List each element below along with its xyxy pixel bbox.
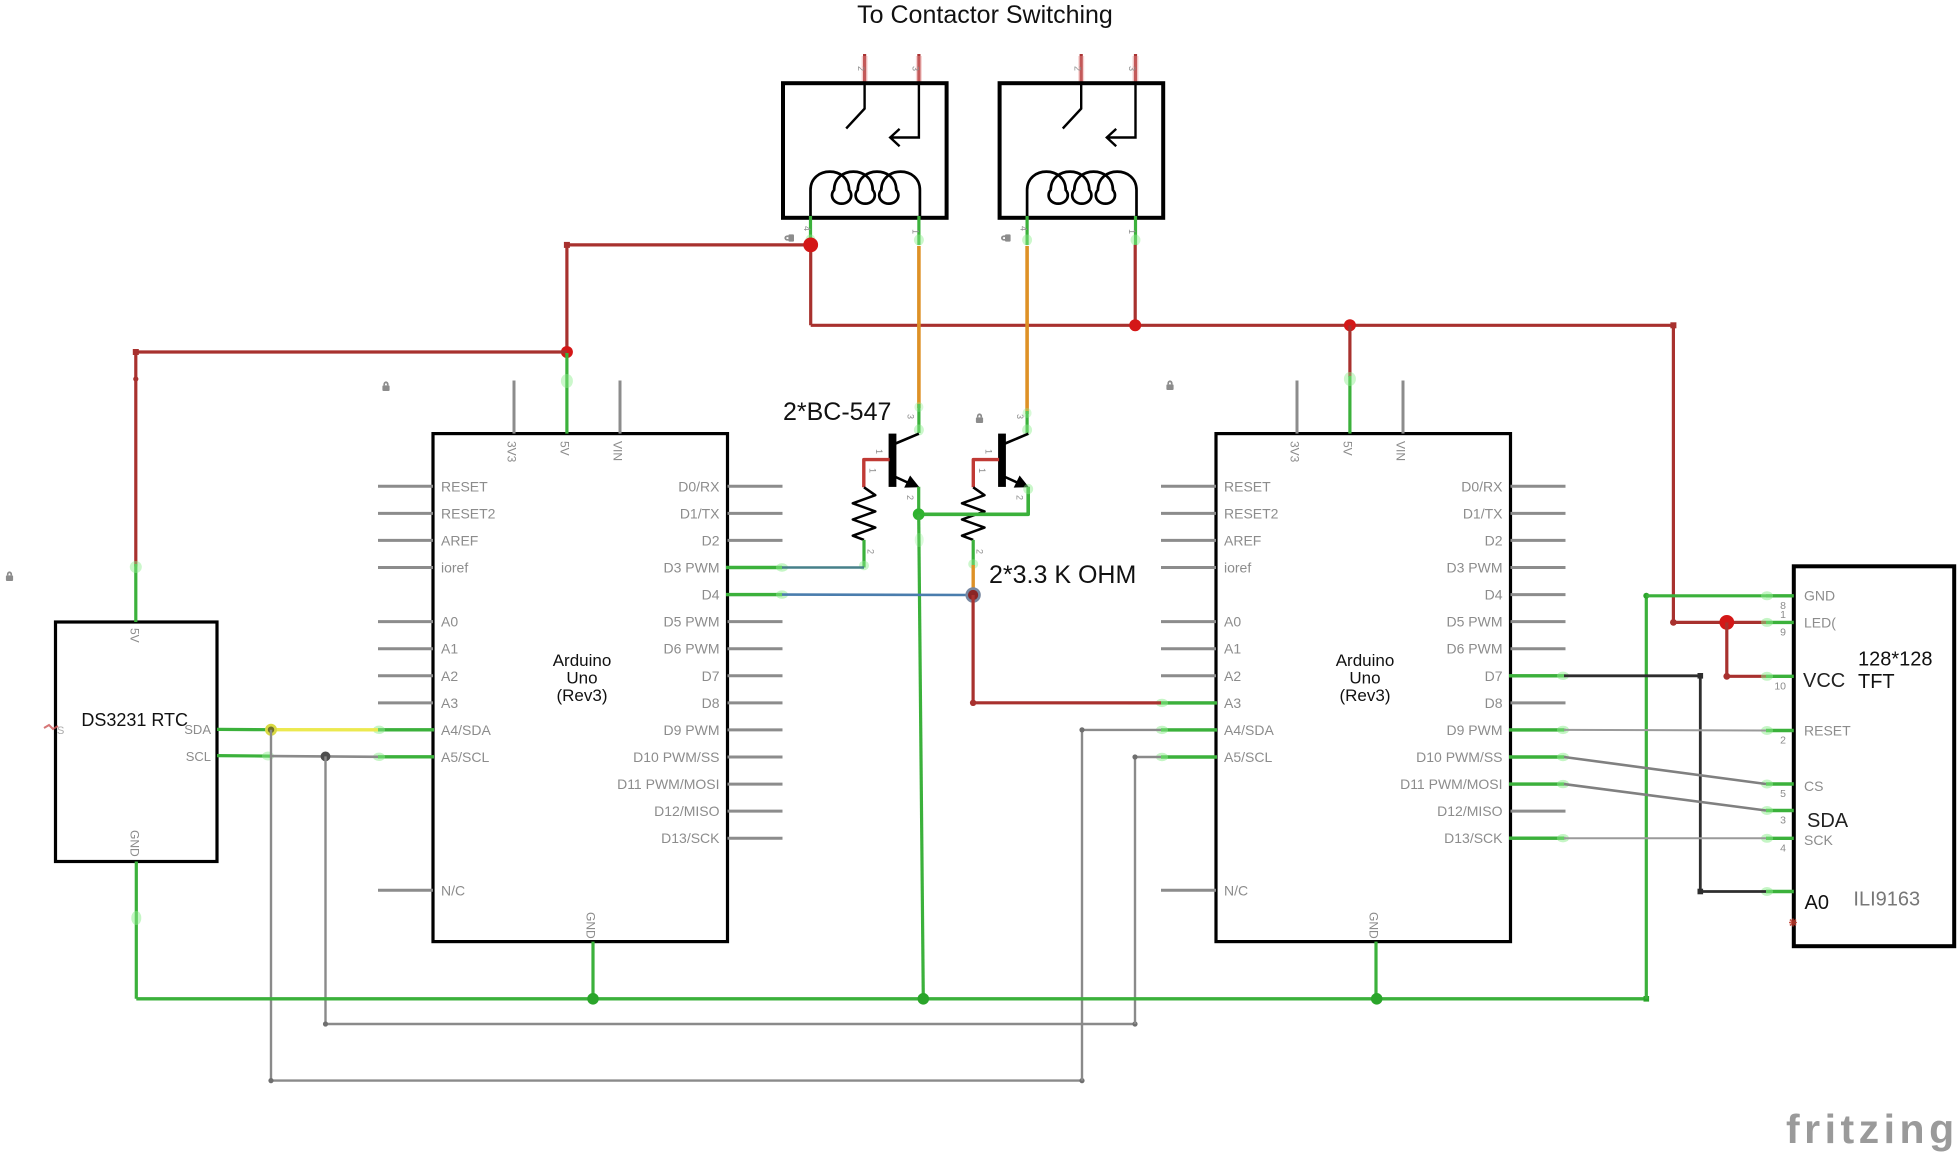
U2 pin A2 stub (1161, 674, 1216, 677)
svg-text:SCK: SCK (1804, 832, 1833, 848)
wire dark red: to Arduino U2 A3 (973, 701, 1161, 704)
svg-text:A0: A0 (1224, 614, 1241, 630)
svg-text:D6 PWM: D6 PWM (1447, 641, 1503, 657)
svg-text:SDA: SDA (1807, 810, 1849, 832)
wire gray SDA long: up to U2 A4 (1081, 730, 1083, 1081)
svg-text:D1/TX: D1/TX (680, 505, 720, 521)
U1 pin A2 stub (378, 674, 433, 677)
svg-text:AREF: AREF (441, 532, 478, 548)
U2 pin D7 stub (1511, 674, 1566, 677)
junction green U1 GND (587, 993, 599, 1005)
U1 pin D1/TX stub (728, 512, 783, 515)
junction red at TFT LED (1719, 615, 1734, 630)
svg-text:A5/SCL: A5/SCL (441, 749, 489, 765)
wire orange: relay K2 pin4 to Q2 collector (1025, 246, 1029, 414)
resistor R1 (3.3k) zigzag (853, 487, 876, 540)
svg-text:A3: A3 (441, 695, 458, 711)
wire red 5V: down to DS3231 (134, 352, 137, 567)
U2 pin D2 stub (1511, 539, 1566, 542)
svg-text:GND: GND (128, 830, 142, 857)
svg-text:A3: A3 (1224, 695, 1241, 711)
svg-text:RESET: RESET (1804, 723, 1851, 739)
svg-text:3V3: 3V3 (1288, 441, 1302, 463)
wire red 5V: down left branch (565, 245, 568, 352)
svg-text:128*128: 128*128 (1858, 649, 1933, 671)
TFT pin LED( stub (1766, 621, 1794, 624)
svg-text:A2: A2 (1224, 668, 1241, 684)
svg-text:D13/SCK: D13/SCK (661, 830, 720, 846)
U2 pin D13/SCK stub (1511, 837, 1566, 840)
svg-text:D7: D7 (1485, 668, 1503, 684)
junction green emitter chain (918, 993, 930, 1005)
svg-text:2: 2 (866, 549, 876, 554)
green overlay U1 A5 stub (378, 755, 434, 758)
relay K1 common arrow (890, 85, 919, 146)
U1 pin D9 PWM stub (728, 728, 783, 731)
bend dot SDA b (1079, 1078, 1084, 1083)
svg-text:D10 PWM/SS: D10 PWM/SS (633, 749, 719, 765)
green overlay U1 A4 stub (378, 728, 434, 731)
svg-text:To Contactor Switching: To Contactor Switching (857, 1, 1113, 29)
U2 pin D1/TX stub (1511, 512, 1566, 515)
wire gray thin: U2 D9 to TFT RESET (1564, 729, 1766, 732)
wire gray SDA long: into U2 A4 (1082, 729, 1161, 731)
U2 pin RESET stub (1161, 485, 1216, 488)
U2 pin A1 stub (1161, 647, 1216, 650)
wire green: DS3231 GND down (135, 862, 138, 999)
svg-text:GND: GND (1367, 912, 1381, 939)
U1 pin GND stub (591, 942, 594, 999)
Arduino Uno U2 body (1216, 434, 1511, 942)
svg-text:D5 PWM: D5 PWM (664, 614, 720, 630)
green overlay U2 A3 stub (1161, 701, 1217, 704)
green overlay U1 D4 stub (726, 593, 782, 596)
svg-text:D0/RX: D0/RX (1461, 478, 1503, 494)
svg-text:3: 3 (910, 66, 920, 71)
lock icon Arduino U2 (1166, 380, 1173, 390)
svg-text:D12/MISO: D12/MISO (654, 803, 719, 819)
svg-text:D8: D8 (702, 695, 720, 711)
junction red relay K1 pin4 (803, 238, 818, 253)
U2 pin A3 stub (1161, 701, 1216, 704)
svg-text:N/C: N/C (441, 882, 465, 898)
corner dot red 2 (133, 349, 139, 355)
U1 pin D2 stub (728, 539, 783, 542)
U1 pin D3 PWM stub (728, 566, 783, 569)
svg-text:RESET: RESET (1224, 478, 1271, 494)
U2 pin D0/RX stub (1511, 485, 1566, 488)
junction green emitters (913, 508, 925, 520)
svg-text:A4/SDA: A4/SDA (1224, 722, 1274, 738)
wire gray SCL long: across bottom (326, 1023, 1136, 1025)
svg-text:(Rev3): (Rev3) (556, 686, 607, 705)
relay K1 coil (811, 172, 920, 217)
svg-text:GND: GND (1804, 588, 1835, 604)
wire gray SDA long: down (270, 730, 272, 1081)
U1 pin D12/MISO stub (728, 810, 783, 813)
TFT pin CS stub (1766, 782, 1794, 785)
TFT pin VCC stub (1766, 675, 1794, 678)
U1 pin A0 stub (378, 620, 433, 623)
relay K2 body (1000, 83, 1164, 218)
svg-text:2: 2 (1780, 735, 1786, 747)
svg-text:CS: CS (1804, 778, 1823, 794)
U1 pin A3 stub (378, 701, 433, 704)
wire gray SCL long: up to U2 A5 (1134, 757, 1136, 1024)
junction yellow SDA (266, 725, 275, 734)
TFT unconnected pin mark (1789, 919, 1797, 927)
svg-text:A5/SCL: A5/SCL (1224, 749, 1272, 765)
green overlay U2 A4 stub (1161, 728, 1217, 731)
svg-text:S: S (57, 725, 64, 737)
U1 pin RESET2 stub (378, 512, 433, 515)
wire orange: R2 to node (972, 565, 975, 591)
U1 pin N/C stub (378, 889, 433, 892)
U1 pin RESET stub (378, 485, 433, 488)
wire green: Arduino U2 5V pin (1348, 376, 1351, 434)
svg-text:D13/SCK: D13/SCK (1444, 830, 1503, 846)
wire gray: U2 D10 to TFT CS (1564, 757, 1766, 784)
wire red: Q1 base elbow (864, 460, 890, 488)
relay K1 switch contact (846, 85, 864, 129)
junction red at Arduino U1 5V column (561, 346, 573, 358)
svg-text:DS3231 RTC: DS3231 RTC (81, 710, 188, 730)
transistor Q2 emitter lead (1005, 477, 1017, 483)
corner dot green TFT GND (1643, 593, 1649, 599)
wire yellow SDA: junction to Arduino U1 A4 (271, 728, 378, 731)
svg-text:D8: D8 (1485, 695, 1503, 711)
bend dot black a (1698, 673, 1704, 679)
svg-text:2*3.3 K OHM: 2*3.3 K OHM (989, 561, 1136, 589)
svg-text:ioref: ioref (1224, 560, 1251, 576)
wire green: Q1 collector stub (917, 404, 920, 433)
relay K2 pin 4 stub (1025, 216, 1028, 245)
U2 pin N/C stub (1161, 889, 1216, 892)
svg-text:A1: A1 (1224, 641, 1241, 657)
svg-text:5: 5 (1780, 788, 1786, 800)
wire black: U2 D7 to TFT A0 (1564, 676, 1766, 892)
svg-text:D5 PWM: D5 PWM (1447, 614, 1503, 630)
wire dark red: node down (971, 595, 974, 703)
relay K1 pin 4 stub (809, 216, 812, 245)
U2 pin 3V3 stub (1296, 381, 1299, 434)
svg-text:2: 2 (905, 495, 915, 500)
svg-text:(Rev3): (Rev3) (1339, 686, 1390, 705)
svg-text:1: 1 (910, 229, 920, 234)
relay K1 body (783, 83, 947, 218)
wire gray SCL: to Arduino U1 A5 (271, 755, 378, 758)
wire green: into TFT GND pin (1646, 594, 1766, 597)
svg-text:4: 4 (1780, 842, 1786, 854)
resistor R1 bottom lead (862, 540, 865, 568)
wire red: to TFT LED pin (1673, 621, 1766, 624)
wire red 5V bus to right (811, 324, 1674, 327)
U2 pin GND stub (1374, 942, 1377, 999)
svg-text:Uno: Uno (566, 669, 597, 688)
green overlay U2 D9 stub (1509, 728, 1564, 731)
DS3231 RTC body (56, 622, 218, 862)
TFT pin SCK stub (1766, 837, 1794, 840)
svg-text:SDA: SDA (184, 722, 211, 737)
U1 pin D13/SCK stub (728, 837, 783, 840)
U1 pin AREF stub (378, 539, 433, 542)
svg-text:D12/MISO: D12/MISO (1437, 803, 1502, 819)
U2 pin A5/SCL stub (1161, 756, 1216, 759)
U2 pin D4 stub (1511, 593, 1566, 596)
U1 pin VIN stub (619, 381, 622, 434)
svg-text:LED(: LED( (1804, 615, 1836, 631)
bus end dot (1644, 996, 1650, 1002)
U2 pin D5 PWM stub (1511, 620, 1566, 623)
U1 pin ioref stub (378, 566, 433, 569)
TFT body (1794, 566, 1954, 946)
U1 pin D10 PWM/SS stub (728, 756, 783, 759)
relay K1 pin 2 stub (863, 54, 866, 85)
lock icon DS3231 (6, 571, 13, 581)
lock icon relay K2 (1001, 234, 1011, 241)
svg-text:1: 1 (983, 449, 993, 454)
svg-text:D1/TX: D1/TX (1463, 505, 1503, 521)
svg-text:D4: D4 (702, 587, 720, 603)
lock icon Arduino U1 (382, 381, 389, 391)
relay K2 common arrow (1107, 85, 1136, 146)
bend dot black b (1698, 889, 1704, 895)
svg-text:Arduino: Arduino (553, 651, 612, 670)
svg-text:A0: A0 (1805, 892, 1829, 914)
svg-text:A0: A0 (441, 614, 458, 630)
svg-text:D3 PWM: D3 PWM (664, 560, 720, 576)
bend dot SDA c (1079, 727, 1084, 732)
junction gray SCL (321, 752, 331, 762)
svg-text:GND: GND (584, 912, 598, 939)
transistor Q1 collector lead (896, 434, 919, 444)
lock icon relay K1 (784, 234, 794, 241)
green overlay U2 D7 stub (1509, 674, 1564, 677)
U1 pin D7 stub (728, 674, 783, 677)
svg-text:1: 1 (977, 468, 987, 473)
U1 pin 3V3 stub (513, 381, 516, 434)
green overlay U1 D3 stub (726, 566, 782, 569)
svg-text:D4: D4 (1485, 587, 1503, 603)
relay K1 pin 1 stub (917, 216, 920, 245)
green overlay U2 D13 stub (1509, 837, 1564, 840)
U2 pin D6 PWM stub (1511, 647, 1566, 650)
wire teal: U1 D3 to R1 (782, 566, 864, 569)
relay K2 coil (1027, 172, 1136, 217)
wire green: Q1 emitter stub (917, 487, 920, 515)
svg-text:RESET2: RESET2 (441, 505, 496, 521)
bend dot SCL c (1132, 754, 1137, 759)
svg-text:ioref: ioref (441, 560, 468, 576)
wire orange: relay K1 pin1 to Q1 collector (917, 246, 921, 408)
U1 pin D6 PWM stub (728, 647, 783, 650)
wire green: ground bus horizontal (136, 997, 1646, 1000)
U2 pin ioref stub (1161, 566, 1216, 569)
svg-text:A1: A1 (441, 641, 458, 657)
U1 pin A1 stub (378, 647, 433, 650)
svg-text:RESET2: RESET2 (1224, 505, 1279, 521)
U2 pin D9 PWM stub (1511, 728, 1566, 731)
svg-text:VCC: VCC (1803, 670, 1845, 692)
Arduino Uno U1 body (433, 434, 728, 942)
svg-text:2: 2 (1073, 66, 1083, 71)
resistor R2 bottom lead (972, 540, 975, 566)
junction red at Arduino U2 5V column (1344, 319, 1356, 331)
svg-text:2: 2 (856, 66, 866, 71)
svg-text:Uno: Uno (1349, 669, 1380, 688)
wire gray SCL long: into U2 A5 (1135, 756, 1161, 758)
corner dot red (564, 242, 570, 248)
svg-text:9: 9 (1780, 626, 1786, 638)
svg-text:10: 10 (1774, 680, 1786, 692)
svg-text:VIN: VIN (611, 441, 625, 461)
svg-text:A4/SDA: A4/SDA (441, 722, 491, 738)
U1 pin A4/SDA stub (378, 728, 433, 731)
U2 pin D3 PWM stub (1511, 566, 1566, 569)
svg-text:1: 1 (867, 468, 877, 473)
svg-text:3: 3 (1780, 815, 1786, 827)
svg-text:D0/RX: D0/RX (678, 478, 720, 494)
DS3231 SDA stub (217, 728, 271, 731)
wire red: Arduino U2 5V drop (1348, 325, 1351, 377)
relay K2 pin 1 stub (1134, 216, 1137, 245)
svg-text:5V: 5V (1341, 441, 1355, 456)
svg-text:4: 4 (802, 226, 812, 231)
green overlay U2 D11 stub (1509, 782, 1564, 785)
transistor Q2 collector lead (1005, 434, 1028, 444)
wire red 5V: to DS3231 column (136, 350, 567, 353)
wire red 5V: relay K1 pin4 junction to left corner (567, 243, 811, 246)
svg-text:1: 1 (874, 449, 884, 454)
wire blue: U1 D4 to R2 node (782, 593, 973, 596)
wire red: relay K2 pin1 drop (1134, 245, 1137, 325)
U2 pin AREF stub (1161, 539, 1216, 542)
U2 pin D12/MISO stub (1511, 810, 1566, 813)
junction red at relay K2 pin1 column (1129, 319, 1141, 331)
svg-text:3: 3 (906, 414, 916, 419)
svg-text:RESET: RESET (441, 478, 488, 494)
glow Q2 emitter (1023, 484, 1033, 494)
U2 pin D8 stub (1511, 701, 1566, 704)
svg-text:D2: D2 (702, 532, 720, 548)
svg-text:D6 PWM: D6 PWM (664, 641, 720, 657)
svg-text:2: 2 (975, 549, 985, 554)
green overlay U2 A5 stub (1161, 755, 1217, 758)
TFT pin SDA stub (1766, 809, 1794, 812)
U1 pin D4 stub (728, 593, 783, 596)
corner dot red 3 (1670, 322, 1676, 328)
U1 pin D8 stub (728, 701, 783, 704)
svg-text:A2: A2 (441, 668, 458, 684)
U1 pin D5 PWM stub (728, 620, 783, 623)
svg-text:SCL: SCL (186, 749, 211, 764)
svg-text:2: 2 (1015, 495, 1025, 500)
svg-text:3V3: 3V3 (505, 441, 519, 463)
svg-text:D9 PWM: D9 PWM (664, 722, 720, 738)
U2 pin D11 PWM/MOSI stub (1511, 783, 1566, 786)
U2 pin A0 stub (1161, 620, 1216, 623)
svg-text:VIN: VIN (1394, 441, 1408, 461)
U2 pin D10 PWM/SS stub (1511, 756, 1566, 759)
svg-text:2*BC-547: 2*BC-547 (783, 398, 891, 426)
U2 pin VIN stub (1402, 381, 1405, 434)
svg-text:TFT: TFT (1858, 671, 1895, 693)
resistor R2 (3.3k) zigzag (962, 487, 985, 540)
wire gray: U2 D11 to TFT SDA (1564, 784, 1766, 810)
junction node R2/D4/A3 (967, 589, 980, 602)
svg-text:D3 PWM: D3 PWM (1447, 560, 1503, 576)
bend dot SCL b (1132, 1021, 1137, 1026)
corner dot red 5 (1723, 673, 1730, 680)
svg-text:AREF: AREF (1224, 532, 1261, 548)
relay K2 pin 2 stub (1080, 54, 1083, 85)
U2 pin A4/SDA stub (1161, 728, 1216, 731)
bend dot SDA a (268, 1078, 273, 1083)
svg-text:5V: 5V (128, 628, 142, 643)
U2 pin RESET2 stub (1161, 512, 1216, 515)
svg-text:5V: 5V (558, 441, 572, 456)
U1 pin D0/RX stub (728, 485, 783, 488)
DS3231 SCL stub (217, 754, 271, 758)
wire gray SCL long: down (324, 756, 326, 1024)
erased pin mark left of DS3231 (44, 725, 58, 729)
wire red: Q2 base elbow (973, 460, 999, 488)
svg-text:fritzing: fritzing (1786, 1106, 1959, 1152)
relay K2 pin 3 stub (1134, 54, 1137, 85)
svg-text:3: 3 (1127, 66, 1137, 71)
svg-text:ILI9163: ILI9163 (1853, 889, 1920, 911)
svg-text:D2: D2 (1485, 532, 1503, 548)
wire green: Q2 collector stub (1025, 411, 1028, 433)
TFT pin RESET stub (1766, 729, 1794, 732)
TFT pin A0 stub (1766, 890, 1794, 893)
svg-text:Arduino: Arduino (1336, 651, 1395, 670)
transistor Q1 body bar (889, 434, 897, 487)
svg-text:D10 PWM/SS: D10 PWM/SS (1416, 749, 1502, 765)
U1 pin A5/SCL stub (378, 756, 433, 759)
wire green: up to TFT GND (1645, 596, 1648, 999)
svg-text:4: 4 (1019, 226, 1029, 231)
svg-text:3: 3 (1015, 414, 1025, 419)
wire red: into TFT VCC pin (1727, 675, 1766, 678)
wire green: DS3231 5V pin (134, 564, 137, 622)
svg-text:1: 1 (1780, 609, 1786, 621)
bend dot SCL a (323, 1021, 328, 1026)
wire red: bus down right side (1672, 325, 1675, 622)
svg-text:D9 PWM: D9 PWM (1447, 722, 1503, 738)
corner dot red 4 (1670, 619, 1677, 626)
svg-text:D11 PWM/MOSI: D11 PWM/MOSI (617, 776, 719, 792)
U1 pin D11 PWM/MOSI stub (728, 783, 783, 786)
transistor Q2 body bar (998, 434, 1006, 487)
junction green U2 GND (1371, 993, 1383, 1005)
relay K2 switch contact (1063, 85, 1081, 129)
relay K1 pin 3 stub (917, 54, 920, 85)
svg-text:D7: D7 (702, 668, 720, 684)
wire gray thin: U2 D13 to TFT SCK (1564, 837, 1766, 839)
wire green: Arduino U1 5V pin (565, 353, 568, 434)
wire gray SDA long: across bottom (271, 1079, 1082, 1081)
svg-text:N/C: N/C (1224, 882, 1248, 898)
wire red 5V: relay K1 pin4 down (809, 245, 812, 325)
corner dot dark red (970, 700, 976, 706)
TFT pin GND stub (1766, 594, 1794, 597)
green overlay U2 D10 stub (1509, 755, 1564, 758)
svg-text:D11 PWM/MOSI: D11 PWM/MOSI (1400, 776, 1502, 792)
transistor Q1 emitter lead (896, 477, 908, 483)
svg-text:1: 1 (1127, 229, 1137, 234)
wire green: emitter junction down to ground bus (919, 514, 924, 999)
